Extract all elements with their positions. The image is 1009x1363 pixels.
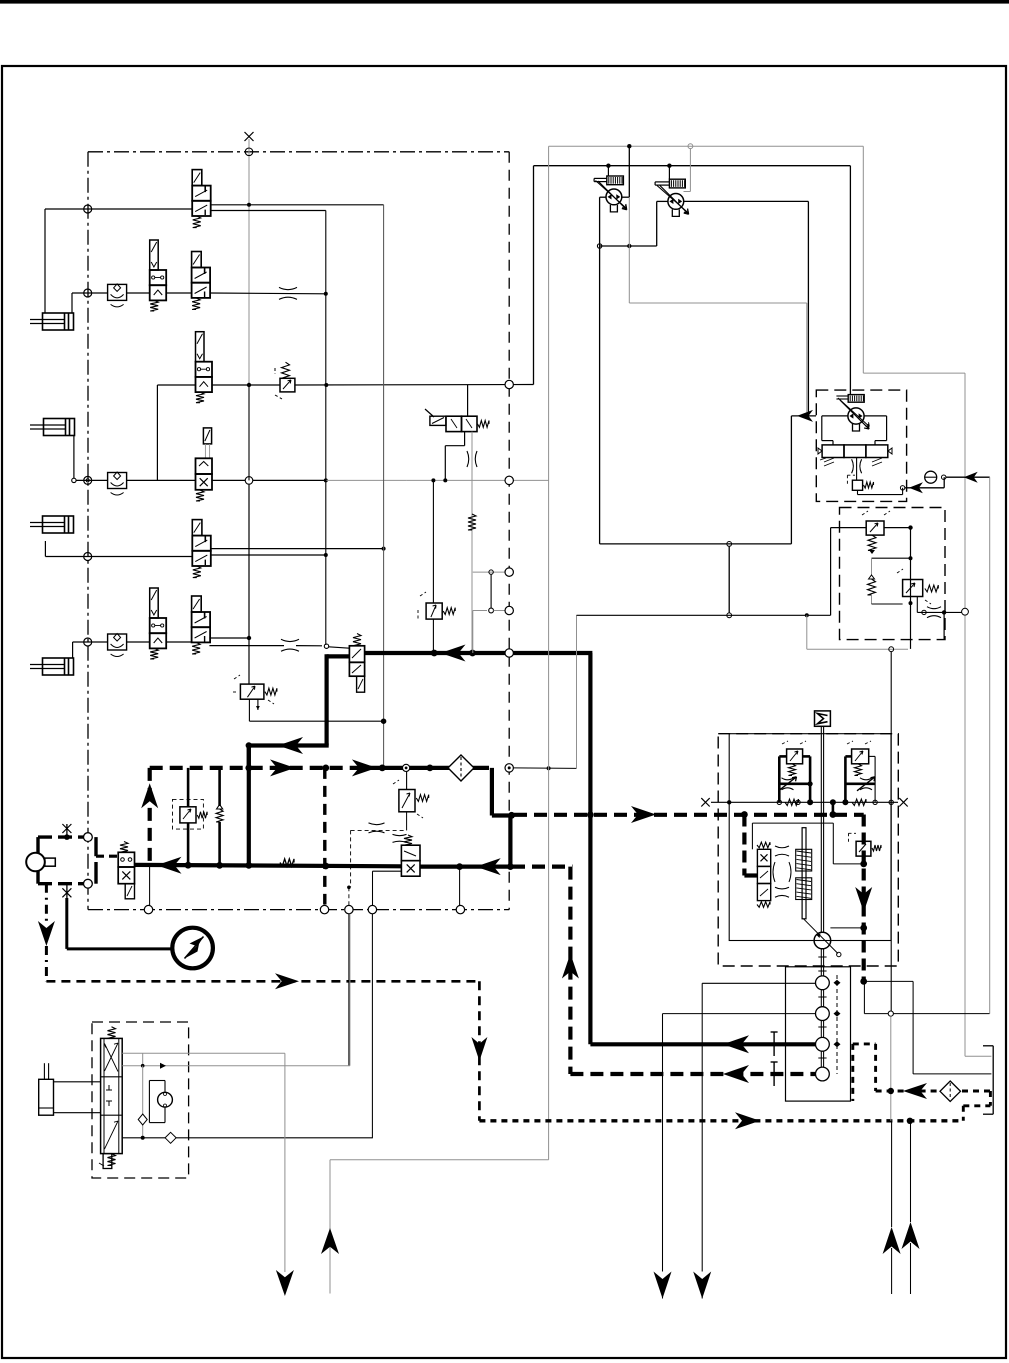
thin feedback wires in block <box>752 823 861 928</box>
wire pilot A y=1053.3 <box>122 1053 285 1065</box>
thick dashed: pilot supply riser x=149.7 <box>141 768 158 865</box>
wire P2 outlet right <box>684 201 809 416</box>
solenoid coil SOL2 <box>669 179 685 188</box>
vent X and pilot line x=249 <box>245 132 254 684</box>
dashed box: pump regulator 1 <box>816 390 906 501</box>
thick dashed branch x=744.4 into servo <box>741 811 757 875</box>
valve V9 (pilot selector) <box>118 842 134 899</box>
gear joint G4 <box>816 1067 830 1081</box>
node row6 circle <box>84 638 92 646</box>
dashed pilot RV1 <box>231 675 274 704</box>
port circle pilot line at boundary <box>505 764 513 772</box>
gear joint G1 <box>816 976 830 990</box>
valve V3 (2/2 tall pilot) <box>196 332 213 403</box>
servo piston with centering springs <box>796 828 812 919</box>
throttle row6 <box>281 639 299 641</box>
wire x=142.7 down with diamond <box>138 1066 147 1140</box>
valve HV (manual lever 3/2, horizontal) <box>425 409 489 432</box>
wire: tank return x=348.9 down <box>348 914 350 1066</box>
X marks above/below box <box>62 824 71 898</box>
reducing valve PRV2 in box2 <box>897 569 938 604</box>
wire gauge to right rail <box>946 472 990 1014</box>
valve S1 (2/2 pilot) <box>150 240 167 311</box>
wire: forward travel line (thin) y=983.3 <box>702 983 815 1271</box>
wire gray drop x=806.8 to y=649 <box>807 615 908 651</box>
relief loop A <box>779 741 813 802</box>
cylinder CYL3 (bucket) <box>30 516 74 533</box>
relief valve RV3 with spring above <box>275 362 295 399</box>
port circle row4 on dashed boundary <box>505 476 513 484</box>
dashed box: main pump/regulator block <box>718 734 898 966</box>
thick wire: pilot corner down to relief row <box>492 768 511 867</box>
wire RV2 top <box>432 480 434 603</box>
feedback spring branch in box2 <box>868 558 911 604</box>
suction risers with up arrows <box>883 1121 901 1294</box>
solenoid coil SOL3 <box>848 395 864 403</box>
wire: gray tank rail x=548.6 full height <box>548 146 550 1159</box>
thick wire: main down x=590 to travel <box>588 653 592 1044</box>
medium dashed drop x=479.4 <box>471 981 487 1121</box>
medium dashed drain line y=981.3 to right <box>46 973 479 989</box>
wire SOL2 feed <box>668 166 670 180</box>
throttles beside spool <box>773 846 791 897</box>
check valve (spring) x=219.6 <box>216 768 223 865</box>
wire row5 <box>45 541 385 557</box>
regulator pilot valve P3 <box>840 400 869 429</box>
diagonal P1 <box>596 181 627 209</box>
wire long y=615.3 <box>577 613 831 618</box>
sigma summation box <box>815 711 831 726</box>
thick dashed wire: pilot supply y=768 <box>150 759 489 776</box>
pilot cylinder (left) <box>39 1063 54 1115</box>
tank stub P2 <box>672 209 679 216</box>
relief valve RV2 <box>426 603 455 619</box>
wire V1 outputs <box>211 205 384 211</box>
cylinder CYL1 (boom) <box>30 313 74 330</box>
thin continuation of pilot line to x=576.5 <box>513 615 576 770</box>
tank stub P3 <box>853 424 860 431</box>
compass gauge circle with needle <box>172 928 213 969</box>
pilot rail x=383.6 <box>383 205 385 768</box>
valve V4 (2/2, pilot top-right) <box>196 428 213 501</box>
port circle on dashed boundary row3 <box>505 380 513 388</box>
wire gray x=863.3 loop <box>863 146 968 1056</box>
thick box: pilot pump enclosure <box>38 837 96 884</box>
relief valve RV5 (pilot) with dashed box <box>173 768 208 865</box>
shaft double line to gears <box>818 949 826 1067</box>
wire HV bottom to row4 <box>445 432 464 481</box>
wire P1 P2 suction loop <box>597 197 668 544</box>
main pump circle <box>814 932 831 949</box>
arrow down travel B <box>654 1272 672 1299</box>
thick solid: tank from box x=66.8 down to gauge line <box>67 898 172 949</box>
tank drop x=284.9 with down arrow <box>276 1053 294 1296</box>
wire row3 <box>157 383 533 480</box>
wire V9 drain to port <box>149 866 151 905</box>
springs on X-line <box>785 799 866 805</box>
wire SOL1 feed <box>607 166 609 176</box>
swash diagonal to pump <box>804 919 838 954</box>
wire PRV2 out y=612.4 <box>917 597 962 640</box>
servo valve (3-pos) in regulator <box>818 445 892 466</box>
node row4 double circle <box>84 476 92 484</box>
small motor circle + loop <box>149 1081 172 1123</box>
top rule bar <box>0 0 1009 4</box>
square dashed suction box <box>853 1044 876 1101</box>
dashed link right of gears <box>834 975 841 1074</box>
node row1 circle <box>84 205 92 213</box>
wire RV1 drain <box>249 699 385 723</box>
gear housing box <box>786 967 851 1101</box>
dash-dot drain x=46.4 with down arrow <box>38 884 55 982</box>
valve V2 (arm1 3/2) <box>192 252 211 310</box>
gear joint G2 <box>816 1007 830 1021</box>
tank drop x=330 with up arrow <box>321 1160 339 1294</box>
wire regulator loop <box>822 416 887 445</box>
thick wire y=745.5 right segment <box>247 746 251 768</box>
small pilot valve + spring in regulator <box>847 475 873 490</box>
pilot rail x=325.8 <box>325 211 327 646</box>
wire suction manifold y=543.9 <box>600 542 792 613</box>
dashed pilot rectangle below PRV <box>347 823 406 906</box>
wire row1 <box>45 203 251 313</box>
port circles on dash-dot edge <box>84 833 93 888</box>
valve V1 (boom1 3/2) <box>192 170 211 228</box>
valve S2 (2/2 pilot) <box>150 588 167 659</box>
gear joint G3 <box>816 1037 830 1051</box>
thick wire: main delivery y=1044.3 <box>590 1032 815 1056</box>
wire: travel line (thin) y=1013.6 <box>663 1014 816 1272</box>
wire HV top port to row3 line <box>467 385 469 416</box>
throttle on row2 <box>279 287 297 289</box>
gauge orifice circle <box>925 471 946 483</box>
lever SOL1 <box>594 178 607 181</box>
cylinder CYL2 (arm) <box>30 419 75 436</box>
inline spring on LS line <box>280 859 294 866</box>
wire pilot C y=1137.8 with diamond <box>122 1132 372 1143</box>
riser x=349.9 <box>349 914 351 1066</box>
wire row2 <box>72 292 328 313</box>
lever SOL3 <box>836 396 848 399</box>
lever SOL2 <box>655 182 669 185</box>
wire: gray top rail y=146.2 <box>549 144 864 149</box>
wire P1 case drain gray path <box>629 197 807 416</box>
thick wire: V8 left-bottom down-left path <box>246 654 350 754</box>
port circles on bottom boundary <box>144 905 464 913</box>
wire RV2 bottom to main line <box>432 619 434 653</box>
wire: black rail y=165.7 <box>534 164 851 168</box>
dashed box: travel pilot valve block <box>92 1022 189 1178</box>
wire x=891.2 down to motor block <box>890 652 892 1014</box>
relief valve RV1 (main) <box>240 684 277 699</box>
valve V6 (swing 3/2) <box>192 596 211 654</box>
solenoid coil SOL1 <box>607 176 624 185</box>
filter F2 <box>940 1081 961 1102</box>
relief valve RV4 in box2 <box>862 511 890 554</box>
throttle below servo valve <box>852 458 862 481</box>
thick dashed: branch down x=325.8 to port <box>323 768 326 905</box>
thin wires case drain rect right <box>864 981 991 1074</box>
wire P1 outlet up <box>622 146 630 197</box>
check-throttle CB3 <box>108 634 127 657</box>
wires cylinder to spool <box>54 1082 101 1113</box>
tank stub P1 <box>610 205 617 212</box>
wire pilot B y=1065.7 with arrow <box>122 1063 350 1069</box>
gray jog to tank bracket <box>965 1055 991 1057</box>
check-throttle CB1 <box>108 284 127 307</box>
wire: x=372.4 down to bottom block <box>371 914 373 1139</box>
thick dashed wire: LS down x=570.4 <box>562 867 579 1074</box>
node row5 circle <box>84 553 92 561</box>
travel spool (tall) <box>99 1027 122 1169</box>
valve V5 (bucket 3/2) <box>192 520 211 578</box>
valve V8 (2-pos, spring top, pilot below) <box>349 634 364 693</box>
wires below LS to ports <box>373 867 460 906</box>
dashed pilot RV2 <box>418 592 426 620</box>
wire row4 <box>72 440 549 483</box>
check-throttle CB2 <box>108 472 127 495</box>
pilot valve with spring (in block) <box>849 833 882 856</box>
wire row6 <box>73 638 350 658</box>
thick dashed wire: control pressure y=814.5 <box>492 802 864 823</box>
wire gray tank y=1159.7 <box>330 1159 549 1161</box>
pressure reducing valve PRV1 <box>393 772 429 831</box>
drive shaft double line <box>821 726 823 932</box>
relief loop B <box>845 741 875 802</box>
pilot pump circle <box>26 853 55 872</box>
gray rail from RV2 area down right side <box>472 611 474 654</box>
inner solid box <box>729 734 891 941</box>
proportional valve P1 <box>598 181 627 210</box>
thick wire: descend x=248.8 to LS line <box>247 746 251 867</box>
thick dashed suction y=1091 with filter <box>876 1083 991 1121</box>
thick wire: main supply from V8 to right <box>365 645 593 662</box>
gray rails to boundary circles y=572 y=610 <box>473 568 514 615</box>
proportional valve P2 <box>660 186 689 215</box>
wire black x=850.4 down to regulator <box>849 166 851 396</box>
node row2 circle <box>84 289 92 297</box>
wire: x=533.5 down to row3 <box>533 166 535 385</box>
thick dashed branch x=863.7 down <box>855 815 872 985</box>
wire RV4 row y=527.6 <box>831 525 913 649</box>
dotted tank line y=1120.8 <box>479 1112 963 1129</box>
wire P2 case drain gray <box>684 149 691 192</box>
gray wire x=890.8 down <box>888 1016 894 1121</box>
pilot line x=472 with throttle and spring <box>467 432 477 653</box>
thick dashed feed box->valve9 <box>96 855 118 858</box>
dashed box: pump regulator 2 <box>840 508 946 640</box>
tank bracket <box>983 1046 993 1114</box>
arrow down travel A <box>693 1272 711 1299</box>
cylinder CYL4 (blade) <box>30 658 74 675</box>
wire regulator drain to gauge <box>858 477 945 494</box>
wire X-line y=802.3 <box>701 798 907 806</box>
thick dashed wire: return y=1074 <box>570 1062 815 1086</box>
dash-dot enclosure (main control valve group) <box>88 152 509 910</box>
thick wire: LS line y=866.6 <box>135 857 573 875</box>
filter F1 on pilot line <box>448 755 474 781</box>
valve V10 (LS shuttle) <box>401 835 420 876</box>
servo spool stack <box>757 842 771 907</box>
wire supply into box with arrow <box>791 410 816 544</box>
